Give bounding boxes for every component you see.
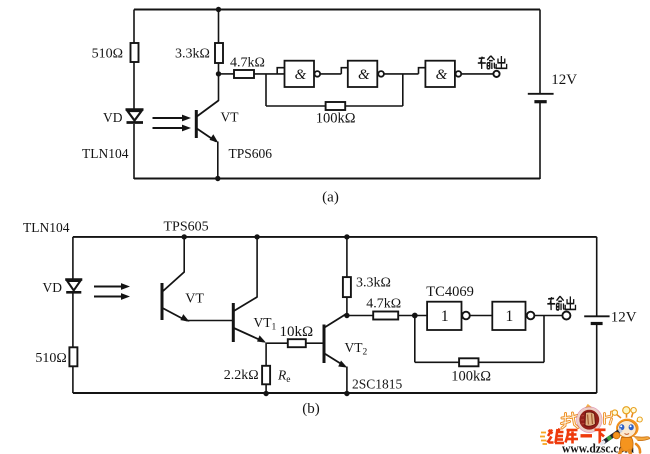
wire: U3 to output terminal (a) bbox=[461, 73, 494, 75]
svg-text:4.7kΩ: 4.7kΩ bbox=[230, 56, 265, 71]
light arrow 1 (b) bbox=[94, 283, 130, 290]
junction dot top rail (a) bbox=[216, 7, 221, 12]
wire: Re to bottom rail (b) bbox=[265, 384, 267, 393]
output terminal circle (a) bbox=[493, 71, 499, 77]
svg-text:510Ω: 510Ω bbox=[92, 47, 123, 62]
battery 12V (a) bbox=[528, 94, 554, 102]
svg-text:&: & bbox=[436, 67, 448, 83]
wire: U1 to U2 (a) bbox=[320, 73, 341, 75]
wire: left branch vertical (a) bbox=[133, 10, 135, 180]
feedback loop wire (a): gate1 input down-right-up to gate2 output bbox=[266, 74, 403, 106]
gate U3 input notch (a) bbox=[419, 68, 426, 74]
label 输出 output (b) drawn strokes bbox=[547, 296, 575, 310]
watermark text 维 red bbox=[548, 429, 565, 444]
transistor VT2 body bar (b) bbox=[323, 325, 326, 364]
svg-text:1: 1 bbox=[505, 308, 513, 325]
svg-text:VT: VT bbox=[221, 110, 240, 125]
svg-text:TPS605: TPS605 bbox=[164, 220, 209, 235]
light arrow 1 (a) bbox=[153, 115, 192, 122]
svg-text:10kΩ: 10kΩ bbox=[280, 324, 314, 340]
gate U1 input notch (a) bbox=[277, 68, 284, 74]
wire: U2 to U3 (a) bbox=[384, 73, 419, 75]
svg-text:VT: VT bbox=[185, 292, 204, 307]
wire: bottom rail (b) bbox=[73, 392, 597, 394]
svg-text:&: & bbox=[295, 67, 307, 83]
resistor 510Ω (b) bbox=[69, 347, 77, 366]
gate U2 output bubble bbox=[378, 71, 384, 77]
gate U3 NAND box (a) bbox=[425, 61, 455, 87]
inverter U4 output bubble bbox=[462, 312, 470, 320]
watermark mascot body, arm, legs bbox=[620, 437, 650, 454]
svg-text:TC4069: TC4069 bbox=[426, 284, 474, 300]
svg-text:12V: 12V bbox=[611, 310, 637, 326]
watermark mascot head and face bbox=[616, 418, 640, 438]
resistor 4.7kΩ (a) bbox=[234, 70, 254, 78]
VT1 emitter lead with arrow bbox=[234, 328, 266, 343]
VT1 collector lead bbox=[234, 237, 257, 311]
wire: top rail (b) bbox=[73, 236, 597, 238]
wire: 3.3k branch vertical (a) bbox=[218, 10, 220, 75]
VT (b) emitter lead with arrow bbox=[163, 308, 233, 322]
wire: 3.3k branch vertical (b) bbox=[346, 237, 348, 316]
watermark text 片 (orange outline, pale core) bbox=[605, 412, 612, 424]
label 输出 output (a) drawn strokes bbox=[478, 56, 507, 69]
svg-text:510Ω: 510Ω bbox=[35, 351, 66, 366]
svg-text:2SC1815: 2SC1815 bbox=[352, 377, 403, 392]
wire: right rail (a) bbox=[539, 10, 541, 180]
svg-text:VD: VD bbox=[43, 280, 63, 295]
svg-text:TLN104: TLN104 bbox=[82, 146, 129, 161]
watermark text 库 red bbox=[566, 430, 579, 444]
watermark text 一 red bbox=[581, 434, 593, 437]
inverter U4 box (b) bbox=[427, 302, 461, 330]
junction dot top rail at VT1 collector (b) bbox=[254, 234, 259, 239]
svg-text:(b): (b) bbox=[302, 401, 320, 417]
VT (a) collector lead bbox=[197, 74, 219, 117]
VT (b) collector lead bbox=[163, 237, 185, 292]
junction dot at 3.3k/4.7k node (a) bbox=[216, 71, 221, 76]
VT2 collector lead bbox=[325, 314, 347, 328]
svg-text:100kΩ: 100kΩ bbox=[451, 369, 491, 385]
wire: U4 to U5 (b) bbox=[470, 315, 493, 317]
resistor 2.2kΩ Re (b) bbox=[262, 366, 270, 385]
watermark mascot antenna bulbs bbox=[612, 407, 642, 423]
watermark text 找 (orange outline, pale core) bbox=[562, 413, 579, 428]
gate U1 NAND box (a) bbox=[285, 61, 315, 87]
svg-text:100kΩ: 100kΩ bbox=[316, 111, 356, 127]
inverter U5 box (b) bbox=[492, 302, 525, 330]
watermark mascot pen bbox=[602, 430, 622, 444]
wire: node to 4.7k to inverter1 (b) bbox=[347, 315, 427, 317]
svg-text:TLN104: TLN104 bbox=[23, 220, 70, 235]
resistor 510Ω (a) bbox=[131, 43, 139, 62]
junction dot top rail at VT collector (b) bbox=[182, 234, 187, 239]
junction dot 3.3k/collector/4.7k node (b) bbox=[344, 313, 349, 318]
gate U3 output bubble bbox=[456, 71, 462, 77]
svg-text:2.2kΩ: 2.2kΩ bbox=[224, 368, 259, 383]
junction dot bottom rail at VT2 emitter (b) bbox=[344, 391, 349, 396]
resistor 3.3kΩ (a) bbox=[215, 43, 223, 63]
resistor 4.7kΩ (b) bbox=[373, 312, 398, 320]
resistor 10kΩ (b) bbox=[288, 339, 306, 347]
battery 12V (b) bbox=[584, 316, 609, 323]
wire: U5 to output terminal (b) bbox=[534, 315, 562, 317]
svg-text:4.7kΩ: 4.7kΩ bbox=[366, 297, 401, 312]
junction dot bottom rail at Re (b) bbox=[263, 391, 268, 396]
gate U1 output bubble bbox=[315, 71, 321, 77]
svg-text:1: 1 bbox=[441, 308, 449, 325]
junction dot top rail at 3.3k (b) bbox=[344, 234, 349, 239]
feedback loop wire (b): inverter1 input down-right-up to inverter2 output bbox=[415, 316, 544, 363]
wire: VT1 emitter node to 10k and down to Re (b) bbox=[266, 343, 323, 366]
photodiode VD (b) bbox=[65, 280, 82, 293]
wire: right rail (b) bbox=[596, 237, 598, 393]
svg-text:&: & bbox=[358, 67, 370, 83]
svg-text:VD: VD bbox=[103, 110, 123, 125]
resistor 3.3kΩ (b) bbox=[343, 277, 351, 297]
svg-text:3.3kΩ: 3.3kΩ bbox=[356, 276, 391, 291]
wire: bottom rail (a) bbox=[134, 178, 540, 180]
VT2 emitter lead with arrow bbox=[325, 354, 348, 394]
resistor 100kΩ (b) bbox=[459, 358, 478, 366]
gate U2 NAND box (a) bbox=[348, 61, 378, 87]
svg-text:3.3kΩ: 3.3kΩ bbox=[175, 47, 210, 62]
wire: left branch vertical (b) bbox=[72, 237, 74, 393]
svg-text:TPS606: TPS606 bbox=[229, 146, 273, 161]
watermark text 下 red bbox=[595, 430, 606, 444]
light arrow 2 (b) bbox=[94, 293, 130, 300]
svg-text:12V: 12V bbox=[551, 72, 577, 88]
inverter U5 output bubble bbox=[527, 312, 535, 320]
photodiode VD (a) bbox=[126, 110, 144, 123]
junction dot inverter1 input (b) bbox=[412, 313, 418, 319]
wire: node to 4.7k to gate1 (a) bbox=[219, 73, 285, 75]
watermark magnifier circle with chip (芯) bbox=[577, 406, 603, 433]
phototransistor VT (a) body bar bbox=[195, 110, 198, 138]
wire: top rail (a) bbox=[134, 9, 540, 11]
resistor 100kΩ (a) bbox=[326, 102, 346, 110]
phototransistor VT (b) body bar bbox=[161, 283, 164, 320]
svg-text:(a): (a) bbox=[322, 190, 339, 206]
watermark orange speed dashes left of 维 bbox=[540, 433, 547, 445]
VT (a) emitter lead with arrow bbox=[197, 129, 219, 179]
junction dot bottom rail (a) bbox=[215, 176, 220, 181]
light arrow 2 (a) bbox=[153, 125, 192, 132]
gate U2 input notch (a) bbox=[341, 68, 348, 74]
output terminal circle (b) bbox=[562, 312, 570, 320]
transistor VT1 body bar (b) bbox=[232, 303, 235, 342]
